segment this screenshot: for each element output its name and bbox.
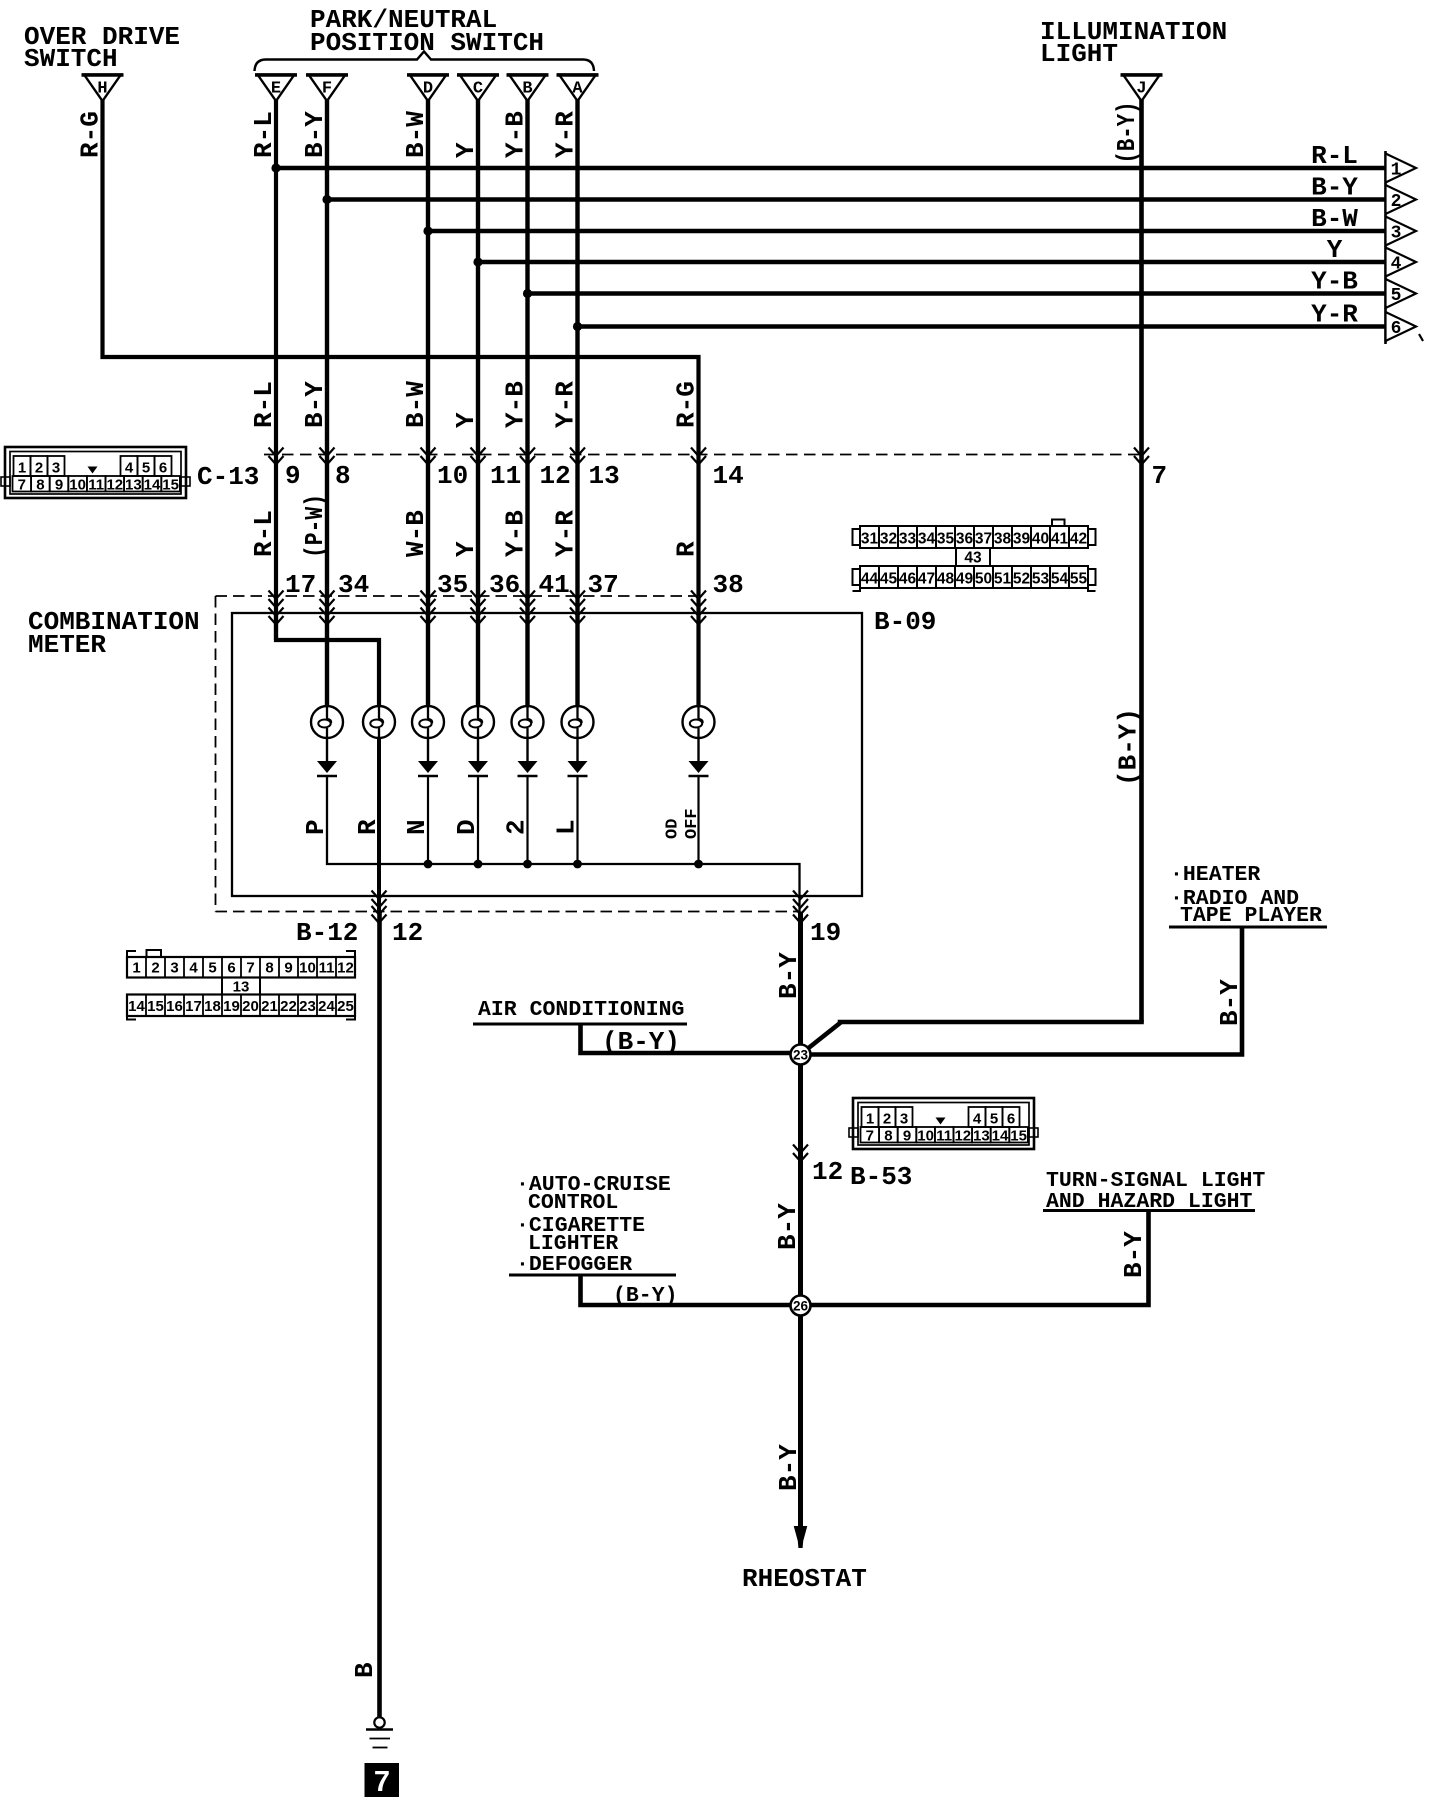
svg-text:34: 34 xyxy=(918,531,936,548)
svg-text:54: 54 xyxy=(1051,571,1069,588)
svg-text:B-Y: B-Y xyxy=(300,381,330,428)
svg-text:Y-R: Y-R xyxy=(1311,300,1358,330)
svg-text:18: 18 xyxy=(204,998,221,1015)
svg-text:2: 2 xyxy=(151,960,159,977)
svg-text:B-09: B-09 xyxy=(874,607,936,637)
svg-text:19: 19 xyxy=(223,998,240,1015)
svg-text:(P-W): (P-W) xyxy=(300,494,330,558)
svg-text:10: 10 xyxy=(437,461,468,491)
svg-text:Y-B: Y-B xyxy=(501,111,531,158)
svg-text:P: P xyxy=(301,819,331,835)
svg-text:2: 2 xyxy=(1391,192,1402,212)
svg-text:Y-R: Y-R xyxy=(551,510,581,557)
svg-text:8: 8 xyxy=(36,477,44,494)
svg-text:W-B: W-B xyxy=(401,510,431,557)
svg-text:F: F xyxy=(322,80,332,99)
svg-text:(B-Y): (B-Y) xyxy=(1114,708,1144,786)
svg-text:24: 24 xyxy=(318,998,335,1015)
svg-text:5: 5 xyxy=(990,1111,998,1128)
svg-text:17: 17 xyxy=(285,570,316,600)
svg-text:12: 12 xyxy=(106,477,123,494)
svg-text:55: 55 xyxy=(1070,571,1088,588)
svg-text:D: D xyxy=(423,80,433,99)
svg-text:B-Y: B-Y xyxy=(773,1203,803,1250)
svg-text:49: 49 xyxy=(956,571,974,588)
svg-text:11: 11 xyxy=(490,461,521,491)
svg-text:35: 35 xyxy=(437,570,468,600)
svg-text:1: 1 xyxy=(132,960,140,977)
svg-text:SWITCH: SWITCH xyxy=(24,44,118,74)
svg-text:6: 6 xyxy=(159,460,167,477)
svg-text:41: 41 xyxy=(539,570,570,600)
svg-text:15: 15 xyxy=(147,998,164,1015)
svg-text:3: 3 xyxy=(170,960,178,977)
svg-text:Y: Y xyxy=(451,541,481,557)
svg-text:37: 37 xyxy=(975,531,992,548)
svg-text:B: B xyxy=(350,1662,380,1678)
svg-text:R-L: R-L xyxy=(1311,141,1358,171)
svg-text:12: 12 xyxy=(392,918,423,948)
svg-text:14: 14 xyxy=(144,477,161,494)
svg-text:3: 3 xyxy=(52,460,60,477)
svg-text:11: 11 xyxy=(88,477,104,494)
svg-text:1: 1 xyxy=(1391,161,1402,181)
svg-text:AIR CONDITIONING: AIR CONDITIONING xyxy=(478,998,684,1022)
svg-text:Y: Y xyxy=(1327,235,1343,265)
svg-text:E: E xyxy=(271,80,281,99)
svg-text:2: 2 xyxy=(35,460,43,477)
svg-text:B-Y: B-Y xyxy=(774,952,804,999)
svg-text:B-12: B-12 xyxy=(296,918,358,948)
svg-text:9: 9 xyxy=(285,461,301,491)
svg-text:8: 8 xyxy=(335,461,351,491)
svg-text:44: 44 xyxy=(861,571,879,588)
svg-text:B-W: B-W xyxy=(401,381,431,428)
svg-text:2: 2 xyxy=(502,819,532,835)
svg-text:13: 13 xyxy=(973,1128,990,1145)
svg-text:3: 3 xyxy=(900,1111,908,1128)
svg-text:D: D xyxy=(452,819,482,835)
svg-text:B-W: B-W xyxy=(401,111,431,158)
svg-text:3: 3 xyxy=(1391,224,1402,244)
svg-text:7: 7 xyxy=(1152,461,1168,491)
svg-text:8: 8 xyxy=(265,960,273,977)
svg-text:N: N xyxy=(402,819,432,835)
svg-text:12: 12 xyxy=(812,1157,843,1187)
svg-text:37: 37 xyxy=(588,570,619,600)
svg-text:(B-Y): (B-Y) xyxy=(613,1284,678,1308)
svg-text:B-Y: B-Y xyxy=(1311,173,1358,203)
svg-text:J: J xyxy=(1136,80,1146,99)
svg-text:13: 13 xyxy=(125,477,142,494)
svg-text:6: 6 xyxy=(1007,1111,1015,1128)
svg-text:13: 13 xyxy=(589,461,620,491)
svg-text:4: 4 xyxy=(189,960,198,977)
svg-text:R-L: R-L xyxy=(249,381,279,428)
svg-text:51: 51 xyxy=(994,571,1012,588)
svg-text:Y-R: Y-R xyxy=(551,111,581,158)
svg-text:35: 35 xyxy=(937,531,955,548)
svg-text:23: 23 xyxy=(299,998,316,1015)
svg-text:32: 32 xyxy=(880,531,897,548)
svg-text:AND HAZARD LIGHT: AND HAZARD LIGHT xyxy=(1046,1190,1253,1214)
svg-text:9: 9 xyxy=(284,960,292,977)
svg-text:43: 43 xyxy=(964,550,982,567)
svg-text:Y: Y xyxy=(451,142,481,158)
svg-text:13: 13 xyxy=(233,979,250,996)
svg-text:10: 10 xyxy=(917,1128,934,1145)
svg-text:Y-B: Y-B xyxy=(1311,267,1358,297)
svg-text:B-Y: B-Y xyxy=(774,1444,804,1491)
svg-text:·DEFOGGER: ·DEFOGGER xyxy=(516,1253,632,1277)
svg-text:40: 40 xyxy=(1032,531,1049,548)
svg-text:R-G: R-G xyxy=(76,111,106,158)
svg-text:25: 25 xyxy=(337,998,354,1015)
svg-text:L: L xyxy=(552,819,582,835)
svg-text:15: 15 xyxy=(162,477,179,494)
svg-text:7: 7 xyxy=(246,960,254,977)
svg-text:(B-Y): (B-Y) xyxy=(602,1027,680,1057)
svg-text:·HEATER: ·HEATER xyxy=(1170,863,1260,887)
svg-text:B-Y: B-Y xyxy=(300,111,330,158)
svg-text:14: 14 xyxy=(992,1128,1009,1145)
svg-text:TAPE PLAYER: TAPE PLAYER xyxy=(1180,904,1322,928)
svg-text:C: C xyxy=(473,80,483,99)
svg-text:Y: Y xyxy=(451,412,481,428)
svg-text:R-G: R-G xyxy=(672,381,702,428)
svg-text:19: 19 xyxy=(810,918,841,948)
svg-text:9: 9 xyxy=(903,1128,911,1145)
svg-text:47: 47 xyxy=(918,571,935,588)
svg-text:LIGHT: LIGHT xyxy=(1040,39,1118,69)
svg-text:5: 5 xyxy=(142,460,150,477)
svg-text:CONTROL: CONTROL xyxy=(528,1191,618,1215)
svg-text:Y-B: Y-B xyxy=(501,510,531,557)
svg-text:23: 23 xyxy=(793,1048,809,1063)
svg-text:10: 10 xyxy=(69,477,86,494)
svg-text:B-W: B-W xyxy=(1311,204,1358,234)
svg-text:B-53: B-53 xyxy=(850,1162,912,1192)
svg-text:6: 6 xyxy=(1391,319,1402,339)
svg-text:OD: OD xyxy=(664,819,683,839)
svg-text:53: 53 xyxy=(1032,571,1050,588)
svg-text:1: 1 xyxy=(18,460,26,477)
svg-text:7: 7 xyxy=(374,1766,390,1798)
svg-text:METER: METER xyxy=(28,630,106,660)
svg-text:41: 41 xyxy=(1051,531,1069,548)
svg-text:B-Y: B-Y xyxy=(1119,1231,1149,1278)
svg-text:12: 12 xyxy=(337,960,354,977)
svg-text:7: 7 xyxy=(18,477,26,494)
svg-text:38: 38 xyxy=(713,570,744,600)
svg-text:H: H xyxy=(97,80,107,99)
svg-text:31: 31 xyxy=(861,531,879,548)
svg-text:Y-R: Y-R xyxy=(551,381,581,428)
svg-text:4: 4 xyxy=(1391,255,1402,275)
svg-text:R: R xyxy=(672,541,702,557)
svg-text:1: 1 xyxy=(866,1111,874,1128)
svg-text:39: 39 xyxy=(1013,531,1031,548)
svg-text:12: 12 xyxy=(540,461,571,491)
svg-text:33: 33 xyxy=(899,531,917,548)
svg-text:4: 4 xyxy=(125,460,134,477)
svg-text:52: 52 xyxy=(1013,571,1030,588)
svg-text:R-L: R-L xyxy=(249,111,279,158)
svg-text:26: 26 xyxy=(793,1299,809,1314)
svg-text:R: R xyxy=(353,819,383,835)
svg-text:OFF: OFF xyxy=(683,808,702,839)
svg-text:POSITION SWITCH: POSITION SWITCH xyxy=(310,28,544,58)
svg-text:RHEOSTAT: RHEOSTAT xyxy=(742,1564,867,1594)
svg-text:34: 34 xyxy=(338,570,369,600)
svg-text:46: 46 xyxy=(899,571,917,588)
svg-text:4: 4 xyxy=(973,1111,982,1128)
svg-text:11: 11 xyxy=(936,1128,952,1145)
svg-text:21: 21 xyxy=(261,998,278,1015)
svg-text:14: 14 xyxy=(128,998,145,1015)
svg-text:48: 48 xyxy=(937,571,955,588)
svg-text:6: 6 xyxy=(227,960,235,977)
svg-text:A: A xyxy=(572,80,583,99)
svg-text:C-13: C-13 xyxy=(197,462,259,492)
svg-text:(B-Y): (B-Y) xyxy=(1112,102,1142,164)
svg-text:8: 8 xyxy=(884,1128,892,1145)
svg-text:5: 5 xyxy=(208,960,216,977)
svg-text:20: 20 xyxy=(242,998,259,1015)
svg-text:5: 5 xyxy=(1391,286,1402,306)
svg-text:Y-B: Y-B xyxy=(501,381,531,428)
svg-text:15: 15 xyxy=(1010,1128,1027,1145)
svg-text:22: 22 xyxy=(280,998,297,1015)
svg-text:11: 11 xyxy=(319,960,335,977)
svg-text:B-Y: B-Y xyxy=(1215,979,1245,1026)
svg-text:12: 12 xyxy=(954,1128,971,1145)
svg-text:36: 36 xyxy=(956,531,974,548)
svg-text:17: 17 xyxy=(185,998,202,1015)
svg-text:10: 10 xyxy=(299,960,316,977)
svg-text:9: 9 xyxy=(55,477,63,494)
svg-text:14: 14 xyxy=(713,461,744,491)
svg-text:36: 36 xyxy=(489,570,520,600)
svg-text:7: 7 xyxy=(866,1128,874,1145)
svg-text:50: 50 xyxy=(975,571,992,588)
svg-text:2: 2 xyxy=(883,1111,891,1128)
svg-text:42: 42 xyxy=(1070,531,1087,548)
svg-text:R-L: R-L xyxy=(249,510,279,557)
svg-text:38: 38 xyxy=(994,531,1012,548)
svg-text:B: B xyxy=(522,80,532,99)
svg-text:16: 16 xyxy=(166,998,183,1015)
svg-text:45: 45 xyxy=(880,571,898,588)
